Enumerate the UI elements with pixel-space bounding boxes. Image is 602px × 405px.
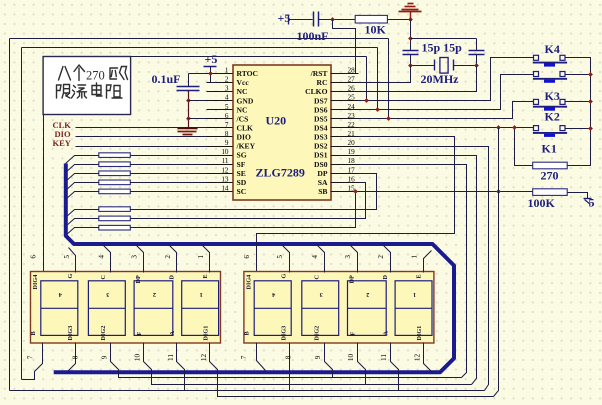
svg-text:+5: +5 (205, 52, 218, 66)
capacitor C 15p right (469, 50, 485, 52)
junction GND pin4 (186, 98, 191, 103)
wire net RTOC top-left outer loop W1 (10, 38, 389, 40)
resistor R 10K (355, 15, 387, 23)
wire display2 pin10 tap (358, 343, 366, 385)
ground symbol top right (inverted ladder) (410, 12, 412, 20)
svg-text:SE: SE (237, 169, 246, 178)
wire crystal right to pin26 CLKO (359, 66, 477, 92)
pin 25 DS7 (331, 100, 359, 102)
crystal Y 20MHz (411, 65, 435, 67)
pin 9 /KEY (207, 146, 233, 148)
junction SB (353, 189, 358, 194)
wire CLK to pin7 (76, 127, 207, 129)
pin 26 CLKO (331, 91, 359, 93)
svg-text:DS5: DS5 (314, 114, 328, 123)
svg-text:CLKO: CLKO (305, 87, 327, 96)
wire display1 top pin 4 to bus (103, 245, 111, 273)
display 1 digit cell 4 (41, 281, 78, 336)
svg-text:G: G (280, 274, 287, 279)
svg-text:10: 10 (134, 354, 142, 362)
svg-text:DIG4: DIG4 (32, 275, 39, 290)
svg-text:DIG3: DIG3 (280, 326, 287, 341)
svg-text:/CS: /CS (236, 114, 249, 123)
svg-text:/KEY: /KEY (236, 142, 256, 151)
wire pin4 GND (189, 100, 207, 102)
svg-text:10: 10 (347, 354, 355, 362)
wire reset node down to RST pin28 (333, 20, 356, 74)
note box: eight 270 ohm current-limiting resistors (43, 57, 131, 115)
pin 2 Vcc (207, 82, 233, 84)
resistor R current-limit 7 (99, 216, 131, 221)
wire resistor 3 left lead + bus entry (66, 174, 99, 182)
wire ground node down through C 15p left (410, 20, 412, 51)
capacitor 100nF (313, 12, 315, 27)
pin 17 DP (331, 173, 359, 175)
wire 270 left to DS4 net (515, 128, 533, 166)
junction DS5/W1 (386, 116, 391, 121)
svg-text:K2: K2 (545, 110, 560, 124)
junction CS pin6 (186, 116, 191, 121)
pin 16 SA (331, 182, 359, 184)
display DS1 4-digit module body (31, 272, 221, 344)
wire C100nF to R10K (319, 19, 356, 21)
junction DS7/W3 (364, 98, 369, 103)
svg-text:DIG1: DIG1 (416, 326, 423, 341)
wire display2 top pin 4 to bus (317, 245, 325, 273)
svg-text:F: F (349, 332, 356, 336)
wire W3 left vertical to display1 pin6 (43, 57, 45, 273)
pin 11 SF (207, 164, 233, 166)
display 1 digit cell 2 (134, 281, 173, 336)
wire display1 top pin 1 to bus (202, 245, 210, 273)
svg-text:8: 8 (225, 130, 229, 138)
wire +5 stem to pin2 (211, 67, 217, 83)
wire R10K to ground node (388, 19, 411, 21)
svg-text:DS7: DS7 (314, 96, 328, 105)
wire display2 pin12 to bus corner (424, 343, 433, 373)
pin 18 DS0 (331, 164, 359, 166)
resistor R current-limit 1 (99, 153, 131, 158)
wire buttons right rail (566, 58, 591, 166)
svg-text:0.1uF: 0.1uF (152, 72, 181, 86)
svg-text:7: 7 (240, 355, 248, 359)
svg-text:6: 6 (30, 255, 38, 259)
junction pin1 row (208, 71, 213, 76)
ground symbol left (178, 128, 198, 130)
wire DS3 to display2 pin6 (257, 137, 455, 273)
pin 27 RC (331, 82, 359, 84)
wire pin6 CS (189, 118, 207, 120)
display 2 digit cell 1 (395, 281, 432, 336)
pin 20 DS2 (331, 146, 359, 148)
svg-text:25: 25 (348, 94, 356, 102)
svg-text:27: 27 (348, 76, 356, 84)
svg-text:100nF: 100nF (297, 29, 329, 43)
junction DS6/W2 (375, 107, 380, 112)
svg-text:24: 24 (348, 103, 356, 111)
pin 13 SD (207, 182, 233, 184)
svg-text:RTOC: RTOC (237, 69, 259, 78)
svg-text:DIG4: DIG4 (245, 275, 252, 290)
svg-text:5: 5 (225, 103, 229, 111)
svg-text:K1: K1 (542, 142, 557, 156)
pin 8 DIO (207, 136, 233, 138)
wire DS7 row to K4 (359, 58, 534, 101)
wire W2 outer loop (22, 47, 378, 49)
wire resistor 1 to chip pin 10 (131, 155, 207, 157)
wire resistor 1 left lead + bus entry (66, 156, 99, 164)
wire DS5 row to K3 (359, 102, 534, 119)
wire resistor 5 to chip pin 14 (131, 191, 207, 193)
svg-text:5: 5 (276, 255, 284, 259)
svg-text:DS2: DS2 (314, 142, 328, 151)
wire DS4 row to K2 (359, 127, 534, 129)
wire W3 right vertical to DS7 (366, 57, 368, 101)
svg-text:15p 15p: 15p 15p (422, 41, 463, 55)
svg-text:7: 7 (225, 121, 229, 129)
wire display1 top pin 2 to bus (169, 245, 177, 273)
wire resistor 5 left lead + bus entry (66, 192, 99, 200)
wire +5 to C 100nF (289, 19, 313, 21)
wire display1 pin12 bottom row (210, 343, 494, 397)
svg-text:K3: K3 (545, 89, 560, 103)
svg-text:G: G (67, 274, 74, 279)
pin 19 DS1 (331, 155, 359, 157)
svg-text:22: 22 (348, 121, 356, 129)
svg-text:20MHz: 20MHz (421, 72, 460, 86)
wire display1 pin11 bottom row (177, 343, 485, 391)
svg-text:D: D (382, 275, 389, 280)
wire resistor 2 left lead + bus entry (66, 165, 99, 173)
svg-text:DP: DP (135, 275, 142, 283)
svg-text:SD: SD (237, 178, 247, 187)
svg-text:DP: DP (348, 275, 355, 283)
pin 22 DS4 (331, 127, 359, 129)
wire display1 pin8 to bus (68, 343, 76, 372)
wire display1 pin7 to W2 (22, 343, 43, 380)
svg-text:4: 4 (98, 255, 106, 259)
svg-text:11: 11 (380, 354, 388, 361)
svg-text:2: 2 (225, 76, 229, 84)
svg-text:4: 4 (59, 291, 62, 298)
resistor R current-limit 6 (99, 207, 131, 212)
power +5 small bottom right (584, 198, 592, 200)
svg-text:3: 3 (106, 291, 109, 298)
svg-text:12: 12 (221, 166, 229, 174)
svg-text:21: 21 (348, 130, 356, 138)
pin 7 CLK (207, 127, 233, 129)
resistor R current-limit 2 (99, 162, 131, 167)
display 2 digit cell 3 (302, 281, 339, 336)
wire KEY to pin9 (76, 146, 207, 148)
junction crystal left (408, 63, 413, 68)
svg-text:SA: SA (318, 178, 328, 187)
svg-text:A: A (382, 331, 389, 336)
svg-text:9: 9 (314, 355, 322, 359)
svg-text:2: 2 (366, 291, 369, 298)
wire DS0 down right (359, 165, 467, 378)
wire top cap link (411, 38, 477, 40)
wire display2 pin8 to bus (289, 343, 291, 391)
wire resistor 6 left lead + bus entry (66, 210, 99, 218)
svg-text:8: 8 (285, 355, 293, 359)
svg-text:13: 13 (221, 175, 229, 183)
wire DS1 down right (359, 156, 477, 385)
resistor R current-limit 3 (99, 171, 131, 176)
wire resistor 7 row to SA (131, 183, 366, 219)
svg-text:10: 10 (221, 148, 229, 156)
svg-text:F: F (136, 332, 143, 336)
pin 3 NC (207, 91, 233, 93)
svg-text:26: 26 (348, 85, 356, 93)
svg-text:E: E (415, 274, 422, 278)
pin 23 DS5 (331, 118, 359, 120)
pin 5 NC (207, 109, 233, 111)
svg-text:1: 1 (200, 291, 203, 298)
svg-text:5: 5 (589, 196, 595, 210)
switch button K2 (534, 126, 539, 131)
pin 28 /RST (331, 73, 359, 75)
svg-text:11: 11 (167, 354, 175, 361)
wire resistor 7 left lead + bus entry (66, 219, 99, 227)
svg-text:16: 16 (348, 175, 356, 183)
svg-text:10K: 10K (365, 23, 387, 37)
svg-text:NC: NC (237, 105, 248, 114)
svg-text:1: 1 (197, 255, 205, 259)
svg-text:7: 7 (27, 355, 35, 359)
wire K-net vertical right (494, 128, 499, 397)
op chip U20 ZLG7289 body (233, 65, 331, 200)
junction SB right (496, 189, 501, 194)
svg-text:DIG3: DIG3 (67, 326, 74, 341)
display 2 digit cell 4 (254, 281, 291, 336)
bus thick segment loop (54, 164, 454, 373)
svg-text:1: 1 (410, 255, 418, 259)
svg-text:4: 4 (311, 255, 319, 259)
svg-text:U20: U20 (266, 114, 287, 128)
svg-text:20: 20 (348, 139, 356, 147)
wire display1 pin9 bottom row (111, 343, 462, 378)
junction 100nF/10K node (330, 17, 335, 22)
wire display2 pin1 to bus corner (424, 251, 432, 273)
svg-text:E: E (202, 274, 209, 278)
switch button K3 (534, 99, 539, 104)
svg-text:14: 14 (221, 184, 229, 192)
svg-text:DS3: DS3 (314, 133, 328, 142)
junction crystal right (474, 63, 479, 68)
svg-text:SC: SC (237, 187, 247, 196)
wire crystal left to pin27 RC (359, 66, 411, 83)
wire display2 top pin 3 to bus (350, 245, 358, 273)
wire cap bottom to ground (188, 91, 190, 129)
svg-text:D: D (169, 275, 176, 280)
svg-text:DP: DP (317, 169, 327, 178)
svg-text:18: 18 (348, 157, 356, 165)
wire resistor 4 left lead + bus entry (66, 183, 99, 191)
svg-text:4: 4 (225, 94, 229, 102)
svg-text:9: 9 (225, 139, 229, 147)
svg-text:2: 2 (153, 291, 156, 298)
svg-text:6: 6 (243, 255, 251, 259)
svg-text:DIO: DIO (237, 133, 251, 142)
wire DIO to pin8 (76, 136, 207, 138)
switch button K4 (534, 55, 539, 60)
svg-text:12: 12 (200, 354, 208, 362)
svg-text:SF: SF (237, 160, 246, 169)
wire resistor 4 to chip pin 13 (131, 182, 207, 184)
svg-text:1: 1 (225, 67, 229, 75)
junction DS4 k-net (496, 125, 501, 130)
wire display1 top pin 3 to bus (136, 245, 144, 273)
svg-text:DS0: DS0 (314, 160, 328, 169)
svg-text:3: 3 (320, 291, 323, 298)
svg-text:SB: SB (318, 187, 327, 196)
svg-text:8: 8 (71, 355, 79, 359)
svg-text:GND: GND (237, 96, 254, 105)
wire 100K right to +5 (568, 193, 588, 199)
wire display2 top pin 2 to bus (383, 245, 391, 273)
svg-text:C: C (100, 275, 107, 279)
svg-text:DS4: DS4 (314, 124, 328, 133)
svg-text:19: 19 (348, 148, 356, 156)
switch button reset (534, 72, 539, 77)
svg-text:1: 1 (413, 291, 416, 298)
svg-text:3: 3 (344, 255, 352, 259)
wire pin1 RTOC to cap top (189, 73, 207, 75)
svg-text:K4: K4 (545, 42, 560, 56)
wire resistor 2 to chip pin 11 (131, 164, 207, 166)
capacitor C 0.1uF (177, 86, 200, 88)
pin 15 SB (331, 191, 359, 193)
svg-text:2: 2 (164, 255, 172, 259)
svg-text:4: 4 (272, 291, 275, 298)
svg-text:2: 2 (377, 255, 385, 259)
wire left cap to crystal node (410, 55, 412, 66)
wire display2 pin11 tap (391, 343, 399, 391)
wire DS2 down right (359, 147, 489, 391)
pin 14 SC (207, 191, 233, 193)
resistor R 100K (533, 189, 568, 196)
wire resistor 8 left lead + bus entry (66, 228, 99, 236)
pin 1 RTOC (207, 73, 233, 75)
wire display2 pin7 (257, 343, 266, 371)
svg-text:RC: RC (317, 78, 328, 87)
wire bottom row W1 link (10, 390, 185, 392)
display 2 digit cell 2 (348, 281, 387, 336)
svg-text:CLK: CLK (237, 124, 254, 133)
svg-text:DS1: DS1 (314, 151, 328, 160)
svg-text:A: A (169, 331, 176, 336)
pin 12 SE (207, 173, 233, 175)
svg-text:28: 28 (348, 67, 356, 75)
resistor R 270 (533, 162, 568, 169)
svg-text:23: 23 (348, 112, 356, 120)
pin 24 DS6 (331, 109, 359, 111)
pin 6 /CS (207, 118, 233, 120)
junction top caps (408, 36, 413, 41)
wire W3 horizontal above chip (44, 56, 367, 58)
svg-text:NC: NC (237, 87, 248, 96)
wire resistor 6 row to DP (131, 174, 377, 210)
svg-text:270: 270 (541, 169, 559, 183)
wire DS6 row to reset btn (359, 75, 534, 110)
svg-text:5: 5 (63, 255, 71, 259)
display 1 digit cell 3 (88, 281, 125, 336)
svg-text:DIG1: DIG1 (203, 326, 210, 341)
svg-text:3: 3 (131, 255, 139, 259)
svg-text:12: 12 (413, 354, 421, 362)
resistor R current-limit 4 (99, 180, 131, 185)
svg-text:100K: 100K (528, 196, 556, 210)
svg-text:C: C (313, 275, 320, 279)
wire W2 right vertical to DS6 (377, 48, 379, 110)
svg-text:ZLG7289: ZLG7289 (256, 166, 305, 180)
svg-text:B: B (243, 331, 250, 335)
wire resistor 8 row to SB (131, 192, 356, 228)
svg-text:6: 6 (225, 112, 229, 120)
svg-text:11: 11 (222, 157, 229, 165)
wire display2 top pin 5 to bus (282, 245, 290, 273)
svg-text:270: 270 (86, 69, 105, 83)
svg-text:KEY: KEY (53, 138, 71, 148)
svg-text:SG: SG (237, 151, 247, 160)
svg-text:17: 17 (348, 166, 356, 174)
display DS2 4-digit module body (244, 272, 434, 344)
pin 4 GND (207, 100, 233, 102)
wire display1 pin5 to bus (69, 248, 76, 273)
wire resistor 3 to chip pin 12 (131, 173, 207, 175)
pin 21 DS3 (331, 136, 359, 138)
svg-text:B: B (30, 331, 37, 335)
resistor R current-limit 5 (99, 189, 131, 194)
pin 10 SG (207, 155, 233, 157)
wire display2 pin9 tap (325, 343, 333, 378)
display 1 digit cell 1 (182, 281, 219, 336)
svg-text:DIG2: DIG2 (100, 326, 107, 341)
wire W1 right vertical to DS5 (388, 39, 390, 119)
capacitor C 15p left (403, 50, 419, 52)
svg-text:DS6: DS6 (314, 105, 328, 114)
wire right cap branch (476, 39, 478, 51)
svg-text:DIG2: DIG2 (313, 326, 320, 341)
svg-text:Vcc: Vcc (237, 78, 250, 87)
svg-text:9: 9 (101, 355, 109, 359)
svg-text:3: 3 (225, 85, 229, 93)
svg-text:/RST: /RST (310, 69, 328, 78)
wire display1 pin10 bottom row (144, 343, 472, 385)
resistor R current-limit 8 (99, 225, 131, 230)
wire SB long row to 100K (359, 191, 533, 193)
